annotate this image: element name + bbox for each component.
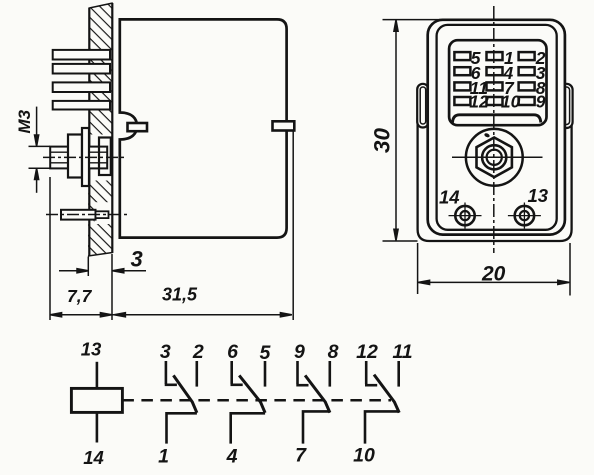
svg-text:9: 9: [294, 341, 305, 363]
svg-text:7,7: 7,7: [67, 286, 93, 306]
svg-text:13: 13: [81, 339, 102, 360]
svg-text:30: 30: [370, 127, 395, 153]
svg-text:31,5: 31,5: [162, 285, 198, 305]
svg-text:10: 10: [501, 92, 521, 112]
svg-text:8: 8: [328, 341, 339, 363]
svg-text:20: 20: [481, 263, 506, 286]
svg-text:4: 4: [226, 446, 238, 468]
svg-text:9: 9: [536, 92, 546, 112]
svg-text:12: 12: [356, 341, 378, 363]
svg-text:11: 11: [392, 341, 412, 363]
svg-text:5: 5: [259, 342, 271, 364]
svg-text:14: 14: [439, 187, 460, 208]
svg-text:14: 14: [83, 447, 104, 468]
svg-text:3: 3: [160, 341, 171, 363]
svg-text:10: 10: [353, 445, 375, 467]
svg-text:M3: M3: [15, 109, 34, 133]
svg-text:3: 3: [131, 247, 143, 272]
svg-text:6: 6: [227, 341, 238, 363]
svg-text:2: 2: [192, 341, 204, 363]
svg-text:12: 12: [469, 92, 489, 112]
svg-text:1: 1: [158, 446, 169, 468]
svg-text:13: 13: [528, 185, 549, 206]
svg-text:7: 7: [295, 445, 307, 467]
